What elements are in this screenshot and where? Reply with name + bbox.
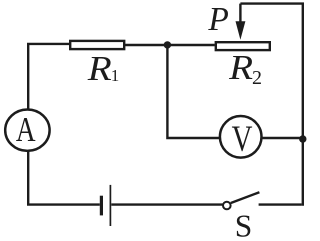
svg-text:1: 1 bbox=[111, 66, 120, 85]
ammeter A bbox=[5, 110, 49, 151]
svg-text:A: A bbox=[16, 110, 36, 149]
battery cell: long thin plate bbox=[109, 185, 111, 226]
wire: junction down then right to voltmeter bbox=[167, 45, 220, 138]
switch S: pivot circle and lever bbox=[223, 192, 259, 209]
potentiometer slider arrow bbox=[236, 4, 246, 40]
wire: battery to switch pivot bbox=[111, 203, 222, 205]
wire: top-left corner from R1 left down to ammeter top bbox=[28, 44, 69, 110]
label R2 bbox=[228, 49, 262, 90]
svg-text:R: R bbox=[228, 49, 253, 88]
voltmeter V bbox=[220, 116, 262, 160]
resistor R1 bbox=[70, 41, 124, 49]
battery cell: short thick plate bbox=[100, 196, 103, 216]
node: junction of voltmeter lead on right rail bbox=[299, 135, 306, 142]
wire: voltmeter to right rail junction bbox=[262, 137, 302, 139]
svg-text:2: 2 bbox=[252, 67, 262, 89]
resistor R2 (potentiometer track) bbox=[216, 42, 270, 50]
wire: R1 to R2 through junction bbox=[125, 44, 215, 46]
svg-text:P: P bbox=[207, 1, 228, 38]
wire: ammeter bottom to bottom-left corner, then right to battery bbox=[28, 151, 100, 205]
label R1 bbox=[87, 50, 120, 89]
svg-text:V: V bbox=[232, 119, 253, 160]
svg-text:R: R bbox=[87, 50, 112, 89]
svg-text:S: S bbox=[235, 208, 253, 241]
node: junction of R1, R2 and voltmeter branch bbox=[164, 41, 171, 48]
wire: switch to bottom-right corner bbox=[259, 203, 302, 205]
wire: right rail from bottom-right corner up to top-right corner and left to slider bbox=[240, 4, 302, 206]
